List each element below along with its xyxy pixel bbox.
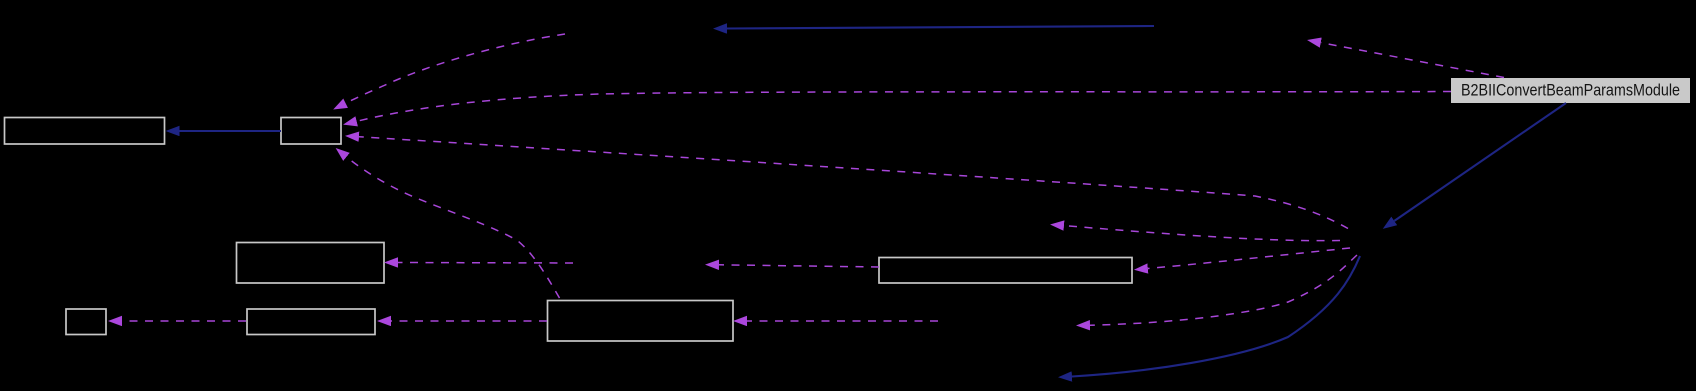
svg-text:B2BIIConvertBeamParamsModule: B2BIIConvertBeamParamsModule [1461,82,1680,100]
